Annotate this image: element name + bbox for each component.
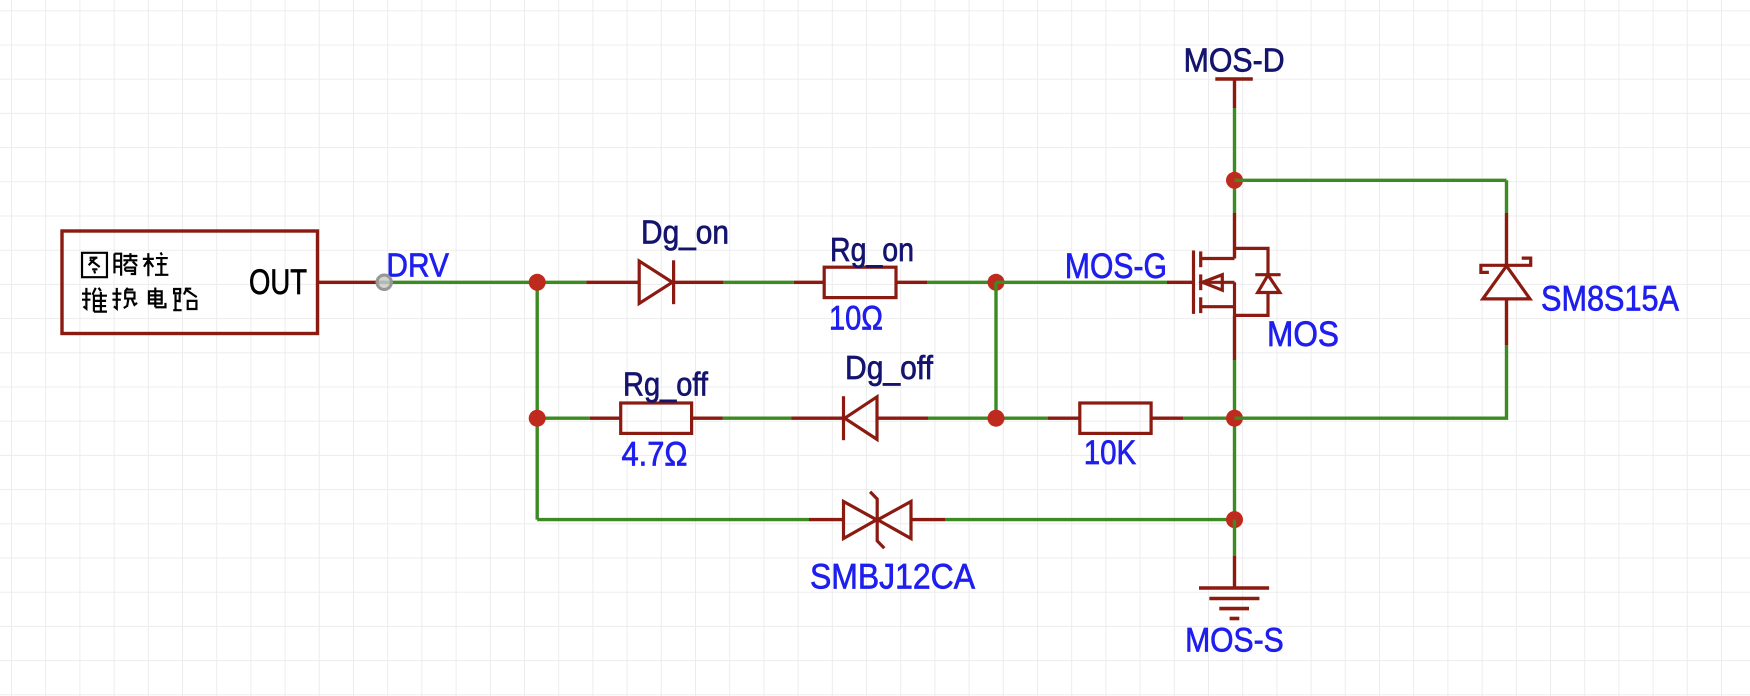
wire source to ground	[1233, 520, 1236, 556]
svg-text:MOS-G: MOS-G	[1065, 247, 1167, 286]
junction source node row2	[1226, 410, 1243, 427]
wire drain to symbol	[1233, 213, 1236, 259]
char 挽	[112, 288, 137, 309]
junction drain node	[1226, 172, 1243, 189]
char 电	[149, 288, 166, 308]
junction row1 left	[529, 274, 546, 291]
wire MOS-D stub	[1233, 79, 1236, 108]
resistor Rg_on	[824, 267, 896, 297]
net tick MOS-D	[1215, 77, 1253, 81]
wire row3 right	[945, 518, 1235, 521]
resistor Rg_on lead right	[896, 281, 927, 284]
wire Rg_off to Dg_off	[723, 417, 792, 420]
wire DRV row1 green	[378, 281, 586, 284]
ground GND	[1199, 588, 1269, 619]
wire 10K to MOS column	[1183, 417, 1235, 420]
resistor 10K lead left	[1048, 417, 1080, 420]
wire left bus vertical	[536, 282, 539, 519]
diode Dg_off	[844, 396, 878, 440]
wire row3 left	[537, 518, 809, 521]
resistor Rg_off	[621, 403, 692, 433]
resistor R 10K	[1080, 403, 1151, 433]
svg-text:DRV: DRV	[386, 247, 449, 284]
junction row1 right (gate node)	[988, 274, 1005, 291]
junction source node row3	[1226, 511, 1243, 528]
svg-text:Dg_on: Dg_on	[641, 214, 729, 251]
junction row2 mid	[988, 410, 1005, 427]
svg-text:MOS-S: MOS-S	[1185, 621, 1284, 659]
resistor Rg_off lead right	[692, 417, 723, 420]
svg-text:10K: 10K	[1084, 434, 1137, 472]
char 腾	[114, 253, 137, 276]
transistor MOS (NMOS with body diode)	[1194, 248, 1281, 315]
wire drain vertical green	[1233, 108, 1236, 213]
char 图	[82, 253, 107, 277]
char 路	[173, 288, 196, 310]
svg-text:Rg_off: Rg_off	[623, 366, 709, 403]
wire right column top green	[1505, 180, 1508, 213]
TVS SMBJ12CA (bidirectional)	[844, 492, 912, 549]
svg-text:MOS-D: MOS-D	[1184, 42, 1285, 79]
text 推挽电路 line 2	[82, 288, 197, 312]
wire gate stub	[1167, 281, 1194, 284]
pin OUT wire from box to node DRV	[319, 281, 384, 284]
wire gate node to MOSFET	[996, 281, 1167, 284]
svg-text:10Ω: 10Ω	[829, 300, 883, 338]
diode Dg_on lead right	[674, 281, 724, 284]
wire row2 from left bus	[537, 417, 590, 420]
wire source vertical green	[1233, 360, 1236, 520]
wire Dg_off to junction	[928, 417, 1048, 420]
junction row2 left	[529, 410, 546, 427]
wire TVS bottom to green	[1505, 299, 1508, 345]
text 图腾柱 (totem pole) line 1	[82, 253, 168, 278]
svg-text:Dg_off: Dg_off	[845, 349, 934, 386]
svg-text:SM8S15A: SM8S15A	[1541, 280, 1680, 319]
char 柱	[143, 253, 169, 277]
diode Dg_on	[639, 260, 673, 304]
svg-text:4.7Ω: 4.7Ω	[622, 435, 688, 473]
TVS SMBJ12CA lead right	[911, 518, 945, 521]
resistor Rg_on lead left	[794, 281, 824, 284]
TVS SMBJ12CA lead left	[809, 518, 844, 521]
node DRV gray dot	[377, 275, 391, 289]
wire drain node to right column	[1235, 179, 1507, 182]
svg-text:MOS: MOS	[1267, 315, 1339, 354]
diode Dg_off lead right	[877, 417, 928, 420]
TVS SM8S15A	[1481, 258, 1531, 299]
svg-text:SMBJ12CA: SMBJ12CA	[810, 558, 976, 597]
char 推	[82, 288, 107, 312]
wire Dg_on to Rg_on	[723, 281, 793, 284]
resistor Rg_off lead left	[590, 417, 621, 420]
diode Dg_off lead left	[792, 417, 844, 420]
wire ground stub	[1233, 556, 1236, 588]
svg-text:Rg_on: Rg_on	[830, 231, 914, 268]
wire right column to TVS	[1505, 213, 1508, 265]
wire Rg_on to gate node	[927, 281, 996, 284]
block U? totem-pole push-pull circuit box	[62, 231, 318, 334]
wire right column bottom green	[1235, 345, 1507, 418]
wire source to symbol	[1233, 315, 1236, 360]
wire gate node vertical	[994, 282, 997, 418]
svg-text:OUT: OUT	[249, 263, 307, 302]
diode Dg_on lead left	[586, 281, 639, 284]
resistor 10K lead right	[1151, 417, 1183, 420]
